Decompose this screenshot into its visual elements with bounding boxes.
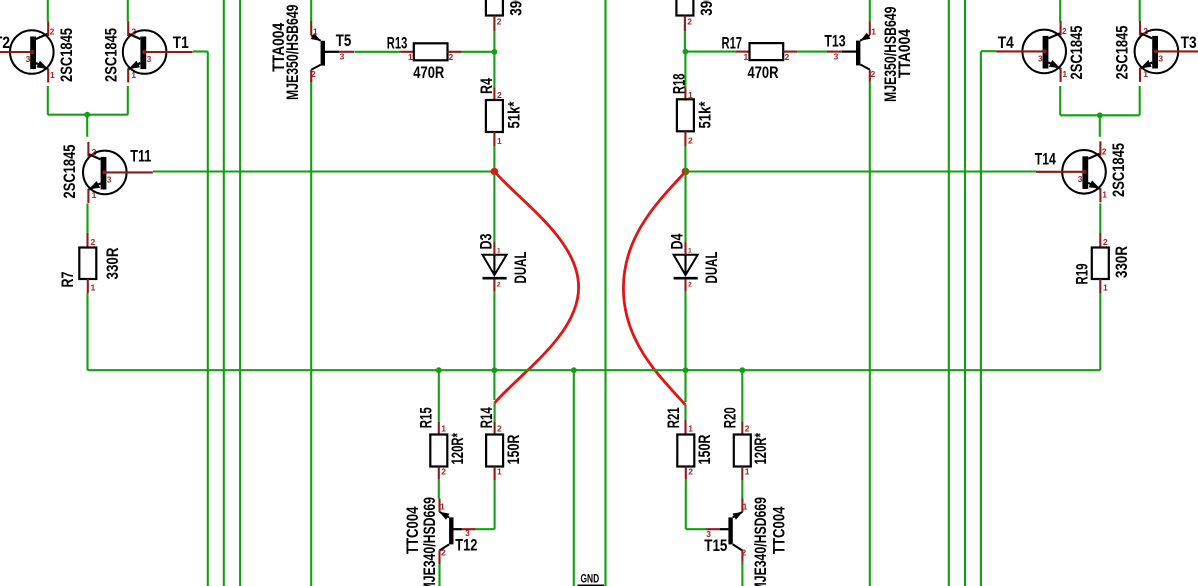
wire bbox=[48, 114, 128, 116]
wire bbox=[493, 132, 495, 146]
wire bbox=[223, 0, 225, 586]
wire bbox=[239, 0, 241, 586]
svg-text:2: 2 bbox=[449, 52, 454, 62]
svg-text:T11: T11 bbox=[130, 146, 151, 165]
wire bbox=[493, 370, 495, 400]
svg-text:R19: R19 bbox=[1073, 264, 1092, 285]
diode D3 bbox=[483, 242, 507, 291]
label T4 bbox=[998, 33, 1014, 52]
wire bbox=[400, 51, 414, 53]
wire bbox=[153, 170, 494, 172]
pin 2 (R18) bbox=[688, 136, 693, 146]
label R14 bbox=[477, 407, 496, 428]
svg-text:R18: R18 bbox=[669, 74, 688, 95]
resistor R17 bbox=[750, 43, 784, 60]
svg-text:DUAL: DUAL bbox=[511, 252, 530, 284]
wire bbox=[1099, 115, 1101, 137]
svg-text:2: 2 bbox=[1143, 26, 1148, 36]
svg-text:3: 3 bbox=[834, 51, 839, 61]
svg-text:MJE340/HSD669: MJE340/HSD669 bbox=[751, 497, 770, 586]
wire bbox=[493, 16, 495, 32]
svg-text:1: 1 bbox=[50, 70, 55, 80]
svg-text:2: 2 bbox=[497, 424, 502, 434]
wire bbox=[741, 480, 743, 499]
label R15 bbox=[417, 407, 436, 428]
svg-text:TTA004: TTA004 bbox=[895, 29, 914, 78]
wire bbox=[684, 171, 686, 241]
wire bbox=[684, 131, 686, 146]
node bbox=[682, 168, 690, 176]
svg-text:1: 1 bbox=[688, 90, 693, 100]
transistor T15 bbox=[706, 499, 748, 565]
svg-text:T5: T5 bbox=[336, 31, 352, 50]
pin 1 (R13) bbox=[408, 52, 413, 62]
svg-text:2: 2 bbox=[497, 17, 502, 27]
svg-text:GND: GND bbox=[581, 572, 600, 586]
label MJE350/HSB649 (T13) bbox=[881, 7, 900, 103]
svg-text:1: 1 bbox=[1143, 69, 1148, 79]
pin 1 (R18) bbox=[688, 90, 693, 100]
pin 2 (R21) bbox=[688, 467, 693, 477]
svg-text:3: 3 bbox=[1038, 53, 1043, 63]
svg-text:TTC004: TTC004 bbox=[770, 506, 789, 554]
node bbox=[683, 367, 689, 373]
node bbox=[84, 112, 90, 118]
wire bbox=[88, 369, 1101, 371]
pin 1 (R21) bbox=[688, 424, 693, 434]
label R18 bbox=[669, 74, 688, 95]
wire bbox=[869, 82, 871, 586]
node bbox=[739, 367, 745, 373]
wire bbox=[438, 479, 440, 499]
resistor R21 bbox=[677, 435, 694, 467]
svg-text:1: 1 bbox=[131, 70, 136, 80]
svg-text:1: 1 bbox=[408, 52, 413, 62]
svg-text:2: 2 bbox=[441, 548, 446, 558]
wire bbox=[684, 405, 686, 420]
wire bbox=[493, 146, 495, 172]
svg-text:3: 3 bbox=[26, 54, 31, 64]
svg-text:2SC1845: 2SC1845 bbox=[1109, 143, 1128, 197]
resistor R4 bbox=[486, 100, 503, 132]
wire bbox=[494, 403, 496, 422]
diode D4 bbox=[674, 242, 698, 291]
wire bbox=[493, 172, 495, 242]
svg-text:D3: D3 bbox=[477, 234, 496, 250]
label 51k* (R4) bbox=[505, 101, 524, 128]
svg-text:T15: T15 bbox=[704, 536, 727, 555]
wire bbox=[741, 422, 743, 435]
label R21 bbox=[664, 407, 683, 428]
svg-text:1: 1 bbox=[688, 424, 693, 434]
label 2SC1845 (T11) bbox=[60, 145, 79, 199]
svg-text:2: 2 bbox=[745, 424, 750, 434]
label DUAL (D3) bbox=[511, 252, 530, 284]
svg-text:T1: T1 bbox=[173, 33, 189, 52]
label T15 bbox=[704, 536, 727, 555]
resistor R18 bbox=[677, 99, 694, 131]
wire bbox=[127, 86, 129, 115]
label DUAL (D4) bbox=[702, 252, 721, 284]
label T14 bbox=[1035, 149, 1056, 168]
label 51k* (R18) bbox=[696, 101, 715, 128]
wire bbox=[1139, 86, 1141, 115]
resistor R19 bbox=[1092, 248, 1109, 280]
svg-text:2: 2 bbox=[50, 27, 55, 37]
svg-text:2: 2 bbox=[688, 467, 693, 477]
wire bbox=[686, 528, 706, 530]
resistor R14 bbox=[486, 435, 503, 467]
wire bbox=[494, 467, 496, 481]
wire bbox=[684, 370, 686, 402]
wire bbox=[797, 51, 828, 53]
svg-text:2: 2 bbox=[688, 136, 693, 146]
svg-text:2SC1845: 2SC1845 bbox=[101, 28, 120, 82]
svg-text:330R: 330R bbox=[103, 248, 122, 280]
label TTA004 (T5) bbox=[269, 22, 288, 71]
wire bbox=[476, 528, 495, 530]
svg-text:T2: T2 bbox=[0, 33, 10, 52]
wire bbox=[981, 50, 996, 52]
label 2SC1845 (T4) bbox=[1067, 26, 1086, 80]
svg-text:2: 2 bbox=[785, 52, 790, 62]
node bbox=[436, 367, 442, 373]
pin 1 (R4) bbox=[497, 136, 502, 146]
resistor (top left, cut) bbox=[486, 0, 503, 16]
resistor R7 bbox=[79, 248, 96, 280]
svg-text:2: 2 bbox=[441, 467, 446, 477]
label R7 bbox=[58, 272, 77, 288]
pin 2 (R15) bbox=[441, 467, 446, 477]
svg-text:2: 2 bbox=[497, 90, 502, 100]
svg-text:1: 1 bbox=[688, 247, 692, 254]
svg-text:T3: T3 bbox=[1181, 33, 1197, 52]
label 2SC1845 (T3) bbox=[1113, 26, 1132, 80]
wire bbox=[193, 50, 208, 52]
label 2SC1845 (T2) bbox=[57, 28, 76, 82]
svg-text:R13: R13 bbox=[387, 34, 408, 53]
svg-text:150R: 150R bbox=[695, 435, 714, 465]
svg-text:2: 2 bbox=[92, 147, 97, 157]
svg-text:1: 1 bbox=[497, 136, 502, 146]
svg-text:2: 2 bbox=[1102, 146, 1107, 156]
node bbox=[491, 168, 499, 176]
label MJE350/HSB649 (T5) bbox=[283, 5, 302, 101]
label 390R (top left) bbox=[507, 0, 526, 16]
svg-text:T13: T13 bbox=[824, 31, 845, 50]
node bbox=[492, 367, 498, 373]
wire bbox=[493, 52, 495, 88]
svg-text:390R: 390R bbox=[697, 0, 716, 16]
svg-text:470R: 470R bbox=[748, 63, 779, 82]
svg-text:2: 2 bbox=[688, 281, 692, 288]
svg-text:2: 2 bbox=[1103, 237, 1108, 247]
wire bbox=[493, 87, 495, 100]
pin 1 (R7) bbox=[91, 283, 96, 293]
pin 2 (R7) bbox=[91, 237, 96, 247]
pin 2 (top left resistor) bbox=[497, 17, 502, 27]
label 2SC1845 (T14) bbox=[1109, 143, 1128, 197]
svg-text:T14: T14 bbox=[1035, 149, 1056, 168]
svg-text:470R: 470R bbox=[413, 63, 444, 82]
wire bbox=[685, 479, 687, 529]
wire bbox=[1059, 86, 1061, 115]
wire bbox=[494, 480, 496, 529]
transistor T1 bbox=[123, 22, 193, 83]
svg-text:1: 1 bbox=[744, 52, 749, 62]
label GND bbox=[581, 572, 600, 586]
label R20 bbox=[721, 407, 740, 428]
wire bbox=[684, 87, 686, 99]
wire bbox=[86, 233, 88, 248]
label 330R (R19) bbox=[1112, 246, 1131, 278]
svg-text:R15: R15 bbox=[417, 407, 436, 428]
label R13 bbox=[387, 34, 408, 53]
label T11 bbox=[130, 146, 151, 165]
wire bbox=[448, 51, 462, 53]
wire bbox=[1099, 233, 1101, 248]
wire bbox=[684, 52, 686, 88]
wire bbox=[1060, 114, 1140, 116]
wire bbox=[494, 422, 496, 435]
wire bbox=[493, 31, 495, 52]
svg-text:120R*: 120R* bbox=[448, 433, 467, 465]
label T12 bbox=[455, 535, 477, 554]
transistor T2 bbox=[0, 22, 55, 83]
label T3 bbox=[1181, 33, 1197, 52]
transistor T5 bbox=[311, 21, 354, 82]
label R4 bbox=[477, 78, 496, 94]
svg-text:3: 3 bbox=[107, 174, 112, 184]
wire bbox=[438, 422, 440, 435]
svg-text:2SC1845: 2SC1845 bbox=[1113, 26, 1132, 80]
wire bbox=[741, 561, 743, 586]
pin 1 (R20) bbox=[745, 467, 750, 477]
wire bbox=[87, 279, 89, 293]
svg-text:T4: T4 bbox=[998, 33, 1014, 52]
resistor R15 bbox=[430, 435, 447, 467]
svg-text:1: 1 bbox=[1102, 190, 1107, 200]
transistor T13 bbox=[827, 21, 876, 82]
svg-text:1: 1 bbox=[497, 467, 502, 477]
svg-text:2: 2 bbox=[311, 69, 316, 79]
transistor T14 bbox=[1036, 141, 1107, 202]
svg-text:R4: R4 bbox=[477, 78, 496, 94]
svg-text:2: 2 bbox=[741, 548, 746, 558]
pin 2 (R17) bbox=[785, 52, 790, 62]
svg-text:51k*: 51k* bbox=[505, 101, 524, 128]
label 120R* (R20) bbox=[751, 433, 770, 465]
wire bbox=[1139, 0, 1141, 22]
svg-text:390R: 390R bbox=[507, 0, 526, 16]
transistor T11 bbox=[83, 142, 153, 203]
label D3 bbox=[477, 234, 496, 250]
svg-text:1: 1 bbox=[1103, 283, 1108, 293]
wire bbox=[438, 564, 440, 586]
pin 2 (R20) bbox=[745, 424, 750, 434]
svg-text:MJE350/HSB649: MJE350/HSB649 bbox=[283, 5, 302, 101]
label R17 bbox=[722, 33, 743, 52]
node bbox=[683, 49, 689, 55]
node bbox=[492, 49, 498, 55]
node bbox=[1097, 112, 1103, 118]
svg-text:1: 1 bbox=[441, 424, 446, 434]
wire bbox=[735, 51, 749, 53]
pin 2 (R13) bbox=[449, 52, 454, 62]
transistor T3 bbox=[1135, 21, 1198, 82]
svg-text:3: 3 bbox=[1078, 174, 1083, 184]
pin 1 (R17) bbox=[744, 52, 749, 62]
wire bbox=[86, 293, 88, 370]
label 330R (R7) bbox=[103, 248, 122, 280]
svg-text:R7: R7 bbox=[58, 272, 77, 288]
svg-text:2: 2 bbox=[871, 69, 876, 79]
wire bbox=[1059, 0, 1061, 22]
svg-text:2SC1845: 2SC1845 bbox=[60, 145, 79, 199]
wire bbox=[310, 80, 312, 586]
label TTC004 (T12) bbox=[403, 506, 422, 554]
wire bbox=[684, 31, 686, 52]
wire bbox=[684, 420, 686, 435]
wire bbox=[1099, 293, 1101, 370]
svg-text:3: 3 bbox=[340, 52, 345, 62]
label TTC004 (T15) bbox=[770, 506, 789, 554]
wire bbox=[47, 86, 49, 115]
svg-text:R17: R17 bbox=[722, 33, 743, 52]
pin 2 (R14) bbox=[497, 424, 502, 434]
label T13 bbox=[824, 31, 845, 50]
wire bbox=[684, 16, 686, 32]
wire bbox=[964, 0, 966, 586]
wire bbox=[741, 467, 743, 481]
wire bbox=[438, 467, 440, 480]
svg-text:2: 2 bbox=[131, 27, 136, 37]
label MJE340/HSD669 (T12) bbox=[420, 497, 439, 586]
label 150R (R21) bbox=[695, 435, 714, 465]
ground bbox=[578, 585, 605, 586]
svg-text:D4: D4 bbox=[668, 233, 687, 249]
wire bbox=[127, 0, 129, 22]
svg-text:3: 3 bbox=[1158, 53, 1163, 63]
wire bbox=[86, 203, 88, 233]
pin 1 (R19) bbox=[1103, 283, 1108, 293]
resistor (top right, cut) bbox=[676, 0, 693, 16]
wire bbox=[684, 291, 686, 370]
resistor R20 bbox=[734, 435, 751, 467]
wire bbox=[438, 370, 440, 422]
svg-text:1: 1 bbox=[497, 247, 501, 254]
svg-text:2: 2 bbox=[687, 17, 692, 27]
svg-text:2SC1845: 2SC1845 bbox=[1067, 26, 1086, 80]
wire bbox=[1099, 279, 1101, 293]
wire bbox=[980, 51, 982, 586]
label 470R (R17) bbox=[748, 63, 779, 82]
svg-text:T12: T12 bbox=[455, 535, 477, 554]
wire bbox=[207, 52, 209, 586]
transistor T4 bbox=[996, 21, 1067, 82]
svg-text:TTC004: TTC004 bbox=[403, 506, 422, 554]
svg-text:330R: 330R bbox=[1112, 246, 1131, 278]
pin 2 (R19) bbox=[1103, 237, 1108, 247]
svg-text:DUAL: DUAL bbox=[702, 252, 721, 284]
node bbox=[571, 367, 577, 373]
svg-text:150R: 150R bbox=[504, 435, 523, 465]
svg-text:51k*: 51k* bbox=[696, 101, 715, 128]
wire bbox=[462, 51, 495, 53]
label 150R (R14) bbox=[504, 435, 523, 465]
svg-text:R14: R14 bbox=[477, 407, 496, 428]
svg-text:R20: R20 bbox=[721, 407, 740, 428]
label 2SC1845 (T1) bbox=[101, 28, 120, 82]
svg-text:1: 1 bbox=[91, 283, 96, 293]
transistor T12 bbox=[439, 499, 476, 565]
pin 1 (R15) bbox=[441, 424, 446, 434]
label 120R* (R15) bbox=[448, 433, 467, 465]
svg-text:R21: R21 bbox=[664, 407, 683, 428]
svg-text:1: 1 bbox=[313, 27, 318, 37]
wire (red arc left) bbox=[494, 172, 578, 404]
wire bbox=[493, 291, 495, 370]
svg-text:3: 3 bbox=[147, 54, 152, 64]
wire bbox=[604, 0, 606, 586]
svg-text:120R*: 120R* bbox=[751, 433, 770, 465]
pin 2 (top right resistor) bbox=[687, 17, 692, 27]
wire bbox=[1099, 203, 1101, 233]
label TTA004 (T13) bbox=[895, 29, 914, 78]
svg-text:1: 1 bbox=[871, 26, 876, 36]
wire bbox=[686, 170, 1037, 172]
svg-text:MJE340/HSD669: MJE340/HSD669 bbox=[420, 497, 439, 586]
label 390R (top right) bbox=[697, 0, 716, 16]
svg-text:1: 1 bbox=[743, 502, 748, 512]
wire bbox=[310, 0, 312, 22]
svg-text:1: 1 bbox=[745, 467, 750, 477]
wire bbox=[684, 146, 686, 171]
resistor R13 bbox=[414, 43, 448, 60]
wire bbox=[685, 467, 687, 480]
wire bbox=[685, 51, 735, 53]
label D4 bbox=[668, 233, 687, 249]
svg-text:1: 1 bbox=[92, 190, 97, 200]
label 470R (R13) bbox=[413, 63, 444, 82]
wire bbox=[783, 51, 797, 53]
wire bbox=[86, 115, 88, 137]
pin 1 (R14) bbox=[497, 467, 502, 477]
wire bbox=[573, 370, 575, 586]
wire bbox=[948, 0, 950, 586]
label MJE340/HSD669 (T15) bbox=[751, 497, 770, 586]
wire bbox=[741, 370, 743, 422]
svg-text:1: 1 bbox=[440, 502, 445, 512]
wire (red arc right) bbox=[623, 171, 685, 405]
wire bbox=[47, 0, 49, 22]
pin 2 (R4) bbox=[497, 90, 502, 100]
wire bbox=[869, 0, 871, 21]
wire bbox=[354, 51, 400, 53]
label R19 bbox=[1073, 264, 1092, 285]
label T5 bbox=[336, 31, 352, 50]
label T1 bbox=[173, 33, 189, 52]
svg-text:2SC1845: 2SC1845 bbox=[57, 28, 76, 82]
svg-text:2: 2 bbox=[497, 281, 501, 288]
svg-text:2: 2 bbox=[91, 237, 96, 247]
label T2 bbox=[0, 33, 10, 52]
